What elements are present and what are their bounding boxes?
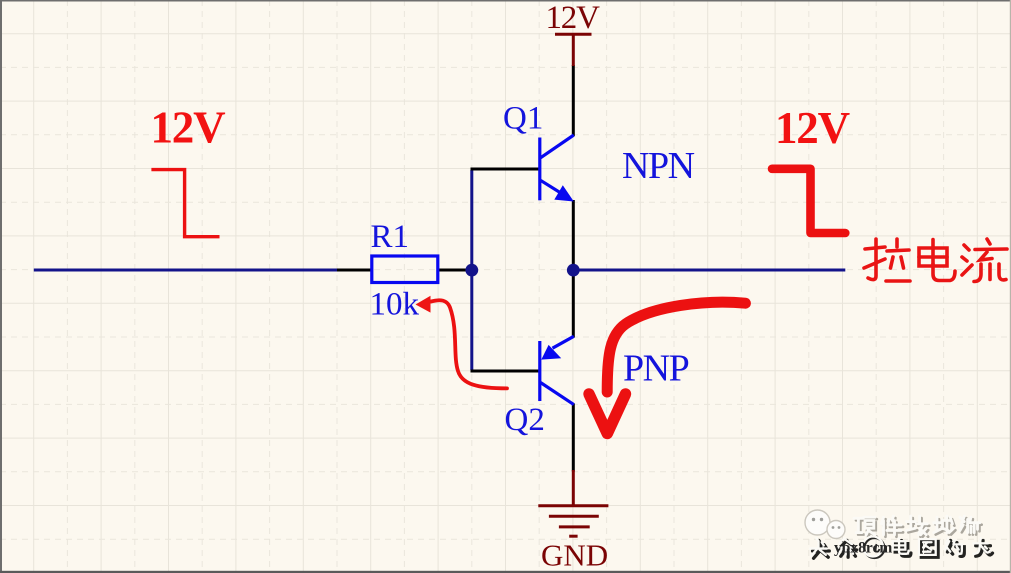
svg-text:12V: 12V bbox=[151, 103, 226, 153]
svg-text:PNP: PNP bbox=[623, 348, 689, 390]
svg-text:12V: 12V bbox=[546, 0, 601, 36]
svg-text:NPN: NPN bbox=[622, 145, 695, 187]
svg-text:R1: R1 bbox=[371, 219, 410, 255]
svg-text:Q1: Q1 bbox=[503, 101, 543, 137]
svg-text:GND: GND bbox=[541, 538, 608, 573]
svg-text:12V: 12V bbox=[775, 103, 850, 153]
svg-text:Q2: Q2 bbox=[505, 402, 545, 438]
svg-text:10k: 10k bbox=[370, 287, 420, 323]
svg-text:ybx8rcm: ybx8rcm bbox=[834, 540, 892, 557]
